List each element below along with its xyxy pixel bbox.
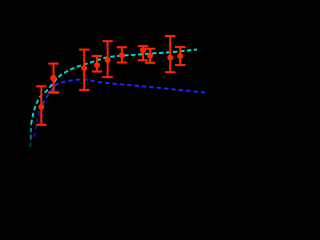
errorbar P8 xyxy=(145,49,155,63)
errorbar P3 xyxy=(79,50,89,90)
errorbar P2 xyxy=(48,64,59,93)
blue dashed curve tail (darker) xyxy=(34,105,42,138)
errorbar P1 xyxy=(36,86,46,125)
errorbar P5 xyxy=(102,41,112,77)
errorbar P6 xyxy=(117,47,127,62)
errorbar P9 xyxy=(165,36,175,72)
errorbar P4 xyxy=(92,56,102,72)
cyan dashed fit curve tail (fading) xyxy=(29,139,31,147)
cyan dashed fit curve main xyxy=(31,50,197,125)
red error bars xyxy=(36,36,185,125)
blue dashed curve main xyxy=(43,80,206,105)
errorbar P7 xyxy=(138,46,148,60)
errorbar P10 xyxy=(175,47,185,65)
